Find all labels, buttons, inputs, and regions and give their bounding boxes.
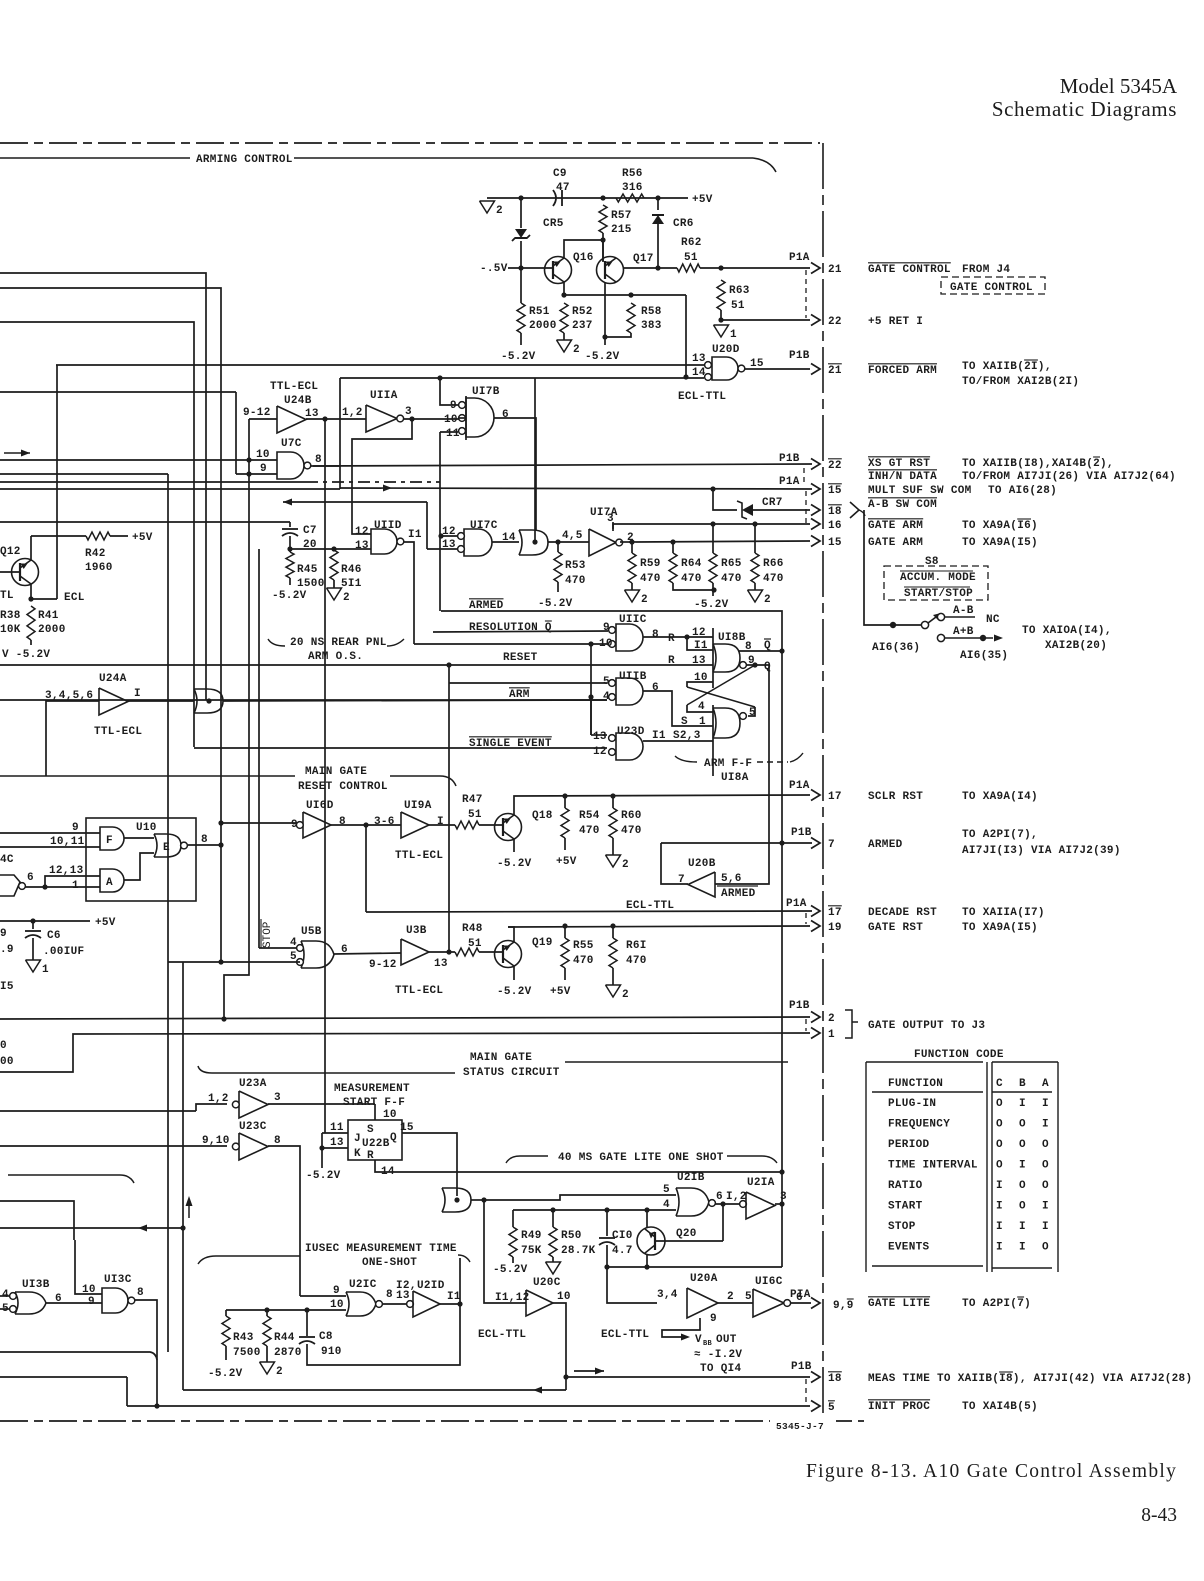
dashed box S8 xyxy=(884,566,988,600)
svg-text:O: O xyxy=(1042,1242,1049,1254)
resistor R54 xyxy=(561,808,569,838)
svg-text:GATE CONTROL: GATE CONTROL xyxy=(950,282,1033,294)
net label INH/N DATA overline xyxy=(868,469,937,471)
wire C7 top xyxy=(289,522,291,527)
svg-text:C6: C6 xyxy=(47,930,61,942)
wire R42 to +5V xyxy=(110,535,128,537)
arrow on line y453 xyxy=(4,452,30,454)
wire vertical x57 xyxy=(56,365,58,599)
svg-text:2: 2 xyxy=(828,1013,835,1025)
wire y1201 xyxy=(0,1201,74,1240)
svg-text:-5.2V: -5.2V xyxy=(306,1170,341,1182)
svg-text:13: 13 xyxy=(355,540,369,552)
svg-text:ECL-TTL: ECL-TTL xyxy=(678,391,726,403)
svg-text:R62: R62 xyxy=(681,237,702,249)
svg-text:P1B: P1B xyxy=(789,350,810,362)
wire R43 bottom xyxy=(225,1346,227,1360)
wire U13B pin4 xyxy=(0,1295,10,1297)
svg-text:-5.2V: -5.2V xyxy=(493,1264,528,1276)
gate U24B xyxy=(277,406,306,433)
svg-text:R45: R45 xyxy=(297,564,318,576)
gate U16D inbubble xyxy=(296,822,303,829)
wire vertical x249 xyxy=(224,419,249,1019)
junction U10 out x222 xyxy=(218,842,223,847)
wire U13C out xyxy=(135,1300,157,1406)
U10 outline box xyxy=(86,818,196,901)
wire Vbb xyxy=(662,1318,700,1337)
junction armed row xyxy=(779,840,784,845)
arrowhead vbb xyxy=(681,1334,690,1341)
gate U20A xyxy=(687,1288,718,1318)
wire branch to decade xyxy=(365,825,367,912)
svg-text:.9: .9 xyxy=(0,944,14,956)
transistor Q19 arrowhead xyxy=(503,945,511,952)
wire F to E xyxy=(124,837,154,839)
junction rail R57 xyxy=(600,195,605,200)
wire y1352 xyxy=(0,1352,157,1360)
svg-text:ECL: ECL xyxy=(64,592,85,604)
brace hook a-b xyxy=(859,510,865,516)
junction C8 top xyxy=(304,1307,309,1312)
junction wired-or U17 xyxy=(532,539,537,544)
gate U21C xyxy=(346,1292,376,1316)
wire U22B J pin xyxy=(322,1132,348,1134)
gate U4C partial xyxy=(0,875,20,896)
svg-text:GATE ARM: GATE ARM xyxy=(868,520,923,532)
wire bus y392 xyxy=(0,391,236,393)
svg-text:FREQUENCY: FREQUENCY xyxy=(888,1119,950,1131)
transistor Q16 arrowhead xyxy=(553,261,561,268)
svg-text:R55: R55 xyxy=(573,940,594,952)
junction Q12 emitter xyxy=(28,596,33,601)
junction pin14 x440 xyxy=(437,375,442,380)
wire y1111 jog xyxy=(196,1104,227,1111)
svg-text:I: I xyxy=(996,1242,1003,1254)
capacitor C7 plate1 xyxy=(282,528,298,530)
svg-text:UI7A: UI7A xyxy=(590,507,618,519)
svg-text:A+B: A+B xyxy=(953,626,974,638)
wire U7C out xyxy=(311,465,341,467)
ov resolution q xyxy=(545,620,552,622)
crossover diag A xyxy=(687,687,755,707)
connector arrow 15 gate arm xyxy=(811,536,820,547)
transistor Q17 arrowhead xyxy=(605,261,613,268)
arming control rule left xyxy=(0,157,190,159)
switch pole dot xyxy=(890,622,896,628)
svg-text:Q16: Q16 xyxy=(573,252,594,264)
wire XS GT RST xyxy=(313,464,812,466)
svg-text:Q: Q xyxy=(764,661,771,673)
svg-text:47: 47 xyxy=(556,182,570,194)
wire C8 top xyxy=(306,1310,308,1336)
junction R63 gnd xyxy=(718,317,723,322)
wire vertical x460 xyxy=(459,1258,461,1303)
junction U13C out init xyxy=(154,1403,159,1408)
junction Q20 emitter top xyxy=(644,1207,649,1212)
dashed link 15-18 xyxy=(805,491,807,524)
arrow on line y453 head xyxy=(21,450,30,457)
svg-text:15: 15 xyxy=(828,537,842,549)
wire INIT PROC line xyxy=(127,1405,810,1407)
svg-text:TTL-ECL: TTL-ECL xyxy=(395,985,443,997)
gate U13C xyxy=(102,1288,128,1313)
wire MULT SUF SW COM xyxy=(340,488,812,489)
svg-text:P1A: P1A xyxy=(779,476,800,488)
transistor Q19 xyxy=(495,941,522,968)
wire bus y273 xyxy=(0,273,206,700)
resistor R56 xyxy=(616,194,644,202)
svg-text:UIIA: UIIA xyxy=(370,390,398,402)
svg-text:I1: I1 xyxy=(408,529,422,541)
svg-text:R43: R43 xyxy=(233,1332,254,1344)
transistor Q18 c-lead xyxy=(503,815,514,823)
wire GATE RST line xyxy=(508,926,810,927)
wire vertical into wired-or xyxy=(534,378,536,542)
svg-text:Q19: Q19 xyxy=(532,937,553,949)
dashed link 2-1 xyxy=(805,1019,807,1031)
ground 2 under R52 xyxy=(557,340,572,352)
wire U21B pin5 xyxy=(484,1195,676,1200)
wire y1175 arc xyxy=(8,1175,134,1183)
callout left 20ns xyxy=(268,639,285,646)
svg-text:5: 5 xyxy=(749,707,756,719)
junction 20ns x591 xyxy=(588,641,593,646)
svg-text:TO A2PI(7): TO A2PI(7) xyxy=(962,1298,1031,1310)
svg-text:I: I xyxy=(134,688,141,700)
wire U16D pin9 line xyxy=(221,822,297,824)
wire R52 bottom xyxy=(563,333,565,340)
arrowhead right on mult line xyxy=(383,485,392,492)
svg-text:1960: 1960 xyxy=(85,562,113,574)
svg-text:-5.2V: -5.2V xyxy=(272,590,307,602)
U13B in bubble 5 xyxy=(10,1306,17,1313)
svg-text:+5V: +5V xyxy=(550,986,571,998)
svg-text:R64: R64 xyxy=(681,558,702,570)
svg-text:O: O xyxy=(996,1098,1003,1110)
junction gate arm16 r66 xyxy=(752,521,757,526)
svg-text:U20C: U20C xyxy=(533,1277,561,1289)
svg-text:I: I xyxy=(1019,1160,1026,1172)
wire U17B pin9 from y378 xyxy=(440,378,458,405)
transistor Q16 xyxy=(545,257,572,284)
svg-text:22: 22 xyxy=(828,460,842,472)
svg-text:1,2: 1,2 xyxy=(208,1093,229,1105)
wire R65 top xyxy=(712,524,714,553)
svg-text:910: 910 xyxy=(321,1346,342,1358)
net label XS GT RST overline xyxy=(868,456,930,458)
wire Q19 emitter rail xyxy=(508,927,514,942)
transistor Q20 arrowhead xyxy=(649,1232,655,1239)
junction -.5V node xyxy=(518,265,523,270)
svg-text:U23A: U23A xyxy=(239,1078,267,1090)
svg-text:ARMING CONTROL: ARMING CONTROL xyxy=(196,154,293,166)
svg-text:STOP: STOP xyxy=(262,921,274,948)
svg-text:Q20: Q20 xyxy=(676,1228,697,1240)
svg-text:TO XAIIA(I7): TO XAIIA(I7) xyxy=(962,907,1045,919)
svg-text:R47: R47 xyxy=(462,794,483,806)
svg-text:MAIN GATE: MAIN GATE xyxy=(305,766,367,778)
wire y1146 xyxy=(0,1145,227,1147)
wire R53 bottom xyxy=(557,582,559,592)
ground 2 under R44 xyxy=(260,1362,275,1374)
svg-text:XS GT RST: XS GT RST xyxy=(868,458,930,470)
svg-text:P1A: P1A xyxy=(789,252,810,264)
svg-text:START/STOP: START/STOP xyxy=(904,588,973,600)
wire U17C out xyxy=(492,541,519,543)
svg-text:51: 51 xyxy=(731,300,745,312)
svg-text:17: 17 xyxy=(828,907,842,919)
svg-text:U24A: U24A xyxy=(99,673,127,685)
junction u17c pin12 xyxy=(438,533,443,538)
wire y522 xyxy=(0,521,290,523)
svg-text:P1B: P1B xyxy=(791,827,812,839)
connector arrow 18 a-b sw com xyxy=(811,505,820,516)
svg-text:12: 12 xyxy=(593,746,607,758)
svg-text:00: 00 xyxy=(0,1056,14,1068)
svg-text:2: 2 xyxy=(573,344,580,356)
svg-text:+5V: +5V xyxy=(95,917,116,929)
resistor R52 xyxy=(560,303,568,333)
diode CR6 bar xyxy=(652,214,664,216)
svg-text:316: 316 xyxy=(622,182,643,194)
connector arrow 7 armed xyxy=(811,838,820,849)
wire U20B loop left xyxy=(661,843,688,884)
capacitor C6 plate2 xyxy=(25,935,41,938)
svg-text:A: A xyxy=(106,877,113,889)
table top left xyxy=(866,1061,983,1063)
svg-text:+5 RET I: +5 RET I xyxy=(868,316,923,328)
svg-text:13: 13 xyxy=(593,731,607,743)
junction y1226 x183 xyxy=(180,1225,185,1230)
main gate reset rule right xyxy=(390,776,456,786)
svg-text:R63: R63 xyxy=(729,285,750,297)
svg-text:9: 9 xyxy=(291,819,298,831)
svg-text:10: 10 xyxy=(599,638,613,650)
resistor R66 xyxy=(751,553,759,583)
wire R66 top xyxy=(754,524,756,553)
svg-text:P1A: P1A xyxy=(786,898,807,910)
wire wired-or meas out xyxy=(471,1199,484,1201)
gate U11C inbubble xyxy=(609,627,616,634)
svg-text:8: 8 xyxy=(315,454,322,466)
svg-text:MEASUREMENT: MEASUREMENT xyxy=(334,1083,410,1095)
svg-text:I: I xyxy=(1019,1221,1026,1233)
svg-text:ACCUM. MODE: ACCUM. MODE xyxy=(900,572,976,584)
wire switch pole xyxy=(893,624,921,626)
wire U22B S pin xyxy=(374,1104,376,1120)
svg-text:O: O xyxy=(996,1160,1003,1172)
transistor Q17 e-lead xyxy=(605,274,616,282)
svg-text:TO XA9A(I6): TO XA9A(I6) xyxy=(962,520,1038,532)
svg-text:R44: R44 xyxy=(274,1332,295,1344)
wire U17A pin3 stub xyxy=(612,522,614,529)
svg-text:Q: Q xyxy=(390,1132,397,1144)
svg-text:ARM F-F: ARM F-F xyxy=(704,758,752,770)
wire R63 bottom to 22 xyxy=(720,310,722,320)
svg-text:7500: 7500 xyxy=(233,1347,261,1359)
gate U17B xyxy=(466,398,494,437)
wire bus y322 xyxy=(0,322,194,747)
junction Q16 emitter xyxy=(561,292,566,297)
svg-text:-5.2V: -5.2V xyxy=(497,986,532,998)
svg-text:9,9: 9,9 xyxy=(833,1300,854,1312)
transistor Q18 e-lead xyxy=(503,831,514,839)
svg-text:MAIN GATE: MAIN GATE xyxy=(470,1052,532,1064)
junction wired-or meas xyxy=(454,1197,459,1202)
wire RESET line xyxy=(0,664,713,666)
wire U11A feedback xyxy=(352,419,412,534)
junction gate arm16 r65 xyxy=(710,521,715,526)
wire R51 bottom xyxy=(520,333,522,345)
wire U24A input xyxy=(46,701,99,776)
svg-text:R56: R56 xyxy=(622,168,643,180)
svg-text:20 NS REAR PNL: 20 NS REAR PNL xyxy=(290,637,387,649)
junction U4C out xyxy=(42,884,47,889)
gate U7C xyxy=(277,452,304,479)
ov xa11b21 xyxy=(1024,359,1038,361)
svg-text:2870: 2870 xyxy=(274,1347,302,1359)
wire MEAS TIME line xyxy=(566,1376,810,1378)
wire y1111 xyxy=(0,1110,196,1112)
transistor Q18 arrowhead xyxy=(503,818,511,825)
junction A+B xyxy=(980,635,986,641)
svg-text:5: 5 xyxy=(828,1402,835,1414)
svg-text:470: 470 xyxy=(763,573,784,585)
wire 12,13 branch xyxy=(45,876,100,887)
table top right xyxy=(992,1061,1058,1063)
arrowhead A+B out xyxy=(994,635,1003,642)
junction rail CR6 xyxy=(655,195,660,200)
resistor R49 xyxy=(509,1227,517,1257)
svg-text:TTL-ECL: TTL-ECL xyxy=(270,381,318,393)
gate U23C xyxy=(239,1133,268,1160)
svg-text:6: 6 xyxy=(27,872,34,884)
svg-text:UI8A: UI8A xyxy=(721,772,749,784)
junction C10 bottom xyxy=(604,1264,609,1269)
wire wired-or out xyxy=(548,541,589,543)
gate wired-or meas xyxy=(442,1188,471,1212)
svg-text:O: O xyxy=(1019,1180,1026,1192)
gate U23D xyxy=(616,733,643,760)
wire vertical x440 to armed xyxy=(439,432,441,611)
wire R44 bottom xyxy=(266,1346,268,1362)
svg-text:Schematic Diagrams: Schematic Diagrams xyxy=(992,97,1177,121)
svg-text:4: 4 xyxy=(290,937,297,949)
gate U17B inbubble xyxy=(459,415,466,422)
svg-text:470: 470 xyxy=(621,825,642,837)
svg-text:TO/FROM AI7JI(26) VIA AI7J2(64: TO/FROM AI7JI(26) VIA AI7J2(64) xyxy=(962,471,1176,483)
svg-text:3: 3 xyxy=(274,1092,281,1104)
wire U24A out xyxy=(128,700,194,702)
resistor R58 xyxy=(627,303,635,333)
ground 2 under R59 xyxy=(625,590,640,602)
gate U10 F xyxy=(100,827,124,850)
svg-text:13: 13 xyxy=(692,655,706,667)
svg-text:UI6D: UI6D xyxy=(306,800,334,812)
junction C6 top xyxy=(30,918,35,923)
svg-text:51: 51 xyxy=(468,809,482,821)
gate U11D outbubble xyxy=(397,538,404,545)
zener diode CR7 bar xyxy=(737,501,747,519)
junction R61 top xyxy=(610,923,615,928)
junction u11c out xyxy=(684,634,689,639)
svg-text:U10: U10 xyxy=(136,822,157,834)
wire U13C pin10 xyxy=(75,1240,102,1294)
svg-text:2: 2 xyxy=(622,989,629,1001)
wire stop to U5B pin4 xyxy=(259,947,297,949)
svg-text:RESET CONTROL: RESET CONTROL xyxy=(298,781,388,793)
connector arrow 17 sclr rst xyxy=(811,790,820,801)
gate U17A xyxy=(589,529,616,556)
zener diode CR5 barh xyxy=(515,237,527,239)
wire U5B pin5 xyxy=(168,961,300,963)
wire contact A+B xyxy=(945,637,993,639)
gate U3B xyxy=(401,939,429,965)
junction meas out x484 xyxy=(481,1197,486,1202)
svg-text:A-B: A-B xyxy=(953,605,974,617)
arrowhead left y1226 xyxy=(138,1225,147,1232)
resistor R51 xyxy=(517,303,525,333)
svg-text:ONE-SHOT: ONE-SHOT xyxy=(362,1257,417,1269)
wire Q17 emitter down xyxy=(604,282,606,337)
svg-text:2000: 2000 xyxy=(38,624,66,636)
wire U11B pin5 xyxy=(449,682,607,684)
svg-text:UI6C: UI6C xyxy=(755,1276,783,1288)
svg-text:8: 8 xyxy=(137,1287,144,1299)
svg-text:TO XA9A(I5): TO XA9A(I5) xyxy=(962,922,1038,934)
resistor R50 xyxy=(549,1227,557,1257)
wire R53 top xyxy=(557,542,559,552)
svg-text:18: 18 xyxy=(828,506,842,518)
wire U24B out xyxy=(306,418,366,420)
svg-text:TTL-ECL: TTL-ECL xyxy=(94,726,142,738)
svg-text:R54: R54 xyxy=(579,810,600,822)
svg-text:-5.2V: -5.2V xyxy=(694,599,729,611)
wire R64 bottom xyxy=(673,583,714,590)
wire vertical x168 xyxy=(167,474,169,1352)
svg-text:21: 21 xyxy=(828,365,842,377)
wire U17A out xyxy=(620,541,630,543)
svg-text:2: 2 xyxy=(343,592,350,604)
junction x249 y460 xyxy=(246,457,251,462)
transistor Q12 base bar xyxy=(19,563,21,581)
svg-text:GATE CONTROL: GATE CONTROL xyxy=(868,264,951,276)
wire U22B R pin xyxy=(375,1160,782,1172)
svg-text:I: I xyxy=(1042,1119,1049,1131)
capacitor C8 plate2 xyxy=(299,1341,315,1344)
gate U20D outbubble xyxy=(738,365,745,372)
wire R50 bottom xyxy=(552,1257,554,1262)
transistor Q19 e-lead xyxy=(503,958,514,966)
switch contact A+B xyxy=(937,634,944,641)
svg-text:I1,12: I1,12 xyxy=(495,1292,530,1304)
junction q out xyxy=(752,662,757,667)
capacitor C6 plate1 xyxy=(25,930,41,932)
svg-text:12: 12 xyxy=(355,526,369,538)
gate U21D xyxy=(413,1291,440,1317)
junction R57 Q16 collector xyxy=(600,237,605,242)
transistor Q20 base bar xyxy=(654,1232,656,1250)
main gate status rule left xyxy=(198,1066,455,1073)
callout arm ff right xyxy=(790,753,803,762)
svg-text:A: A xyxy=(1042,1078,1049,1090)
svg-text:19: 19 xyxy=(828,922,842,934)
wire U5B out xyxy=(334,953,401,954)
wire U20D pin13 line xyxy=(56,364,704,366)
svg-text:R60: R60 xyxy=(621,810,642,822)
wire Q20 emitter xyxy=(646,1210,648,1228)
capacitor C7 plate2 xyxy=(282,533,298,536)
